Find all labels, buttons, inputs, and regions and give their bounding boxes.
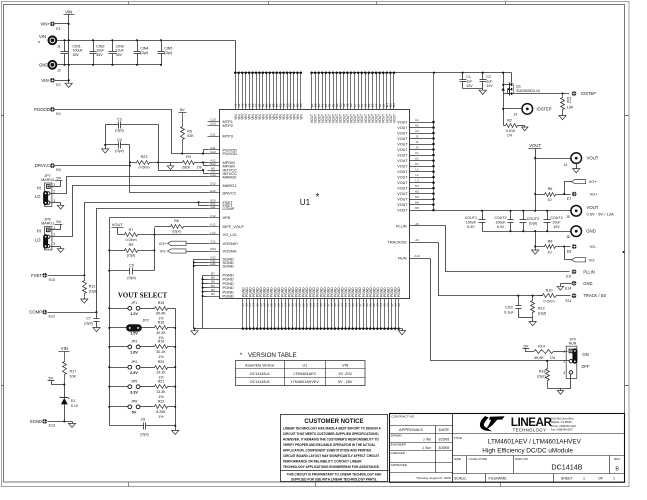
flag VO- sense [565, 247, 597, 263]
svg-text:CIN2: CIN2 [96, 44, 104, 48]
svg-text:E7: E7 [567, 197, 571, 201]
svg-text:3: 3 [563, 371, 565, 375]
svg-text:PERFORMANCE OR RELIABILITY. C: PERFORMANCE OR RELIABILITY. CONTACT LINE… [283, 459, 362, 463]
svg-text:2.5V: 2.5V [130, 371, 138, 375]
svg-text:SCALE:: SCALE: [454, 477, 467, 481]
wire C3 right vertical to R23 [158, 125, 160, 163]
svg-text:(Opt): (Opt) [538, 312, 546, 316]
terminal E10 FSET [31, 273, 85, 282]
U1 top VOUT pins group with bus [310, 71, 435, 123]
terminal E1 VIN+ [40, 21, 69, 31]
wire VIN rail horizontal to U1 bus [57, 39, 236, 72]
resistor R5 51K PGOOD pullup [179, 107, 195, 154]
svg-text:MARG0: MARG0 [41, 178, 54, 182]
svg-text:13.3K: 13.3K [156, 390, 166, 394]
svg-text:PLLIN: PLLIN [583, 269, 594, 274]
resistor R8 10 to E8 [536, 240, 571, 255]
svg-text:CIN3: CIN3 [116, 44, 124, 48]
svg-text:*: * [240, 352, 243, 359]
svg-text:CUSTOMER NOTICE: CUSTOMER NOTICE [304, 418, 363, 425]
svg-text:HOWEVER, IT REMAINS THE CUSTOM: HOWEVER, IT REMAINS THE CUSTOMER'S RESPO… [283, 437, 379, 441]
svg-text:SHEET: SHEET [561, 477, 574, 481]
svg-text:6.3V: 6.3V [467, 225, 475, 229]
svg-text:K2: K2 [415, 156, 419, 160]
svg-text:(Opt): (Opt) [140, 51, 148, 55]
title text [482, 438, 581, 454]
title block grid [390, 414, 625, 483]
svg-text:CIRCUIT THAT MEETS CUSTOMER-SU: CIRCUIT THAT MEETS CUSTOMER-SUPPLIED SPE… [283, 432, 379, 436]
svg-text:1%: 1% [158, 395, 164, 399]
svg-text:Q1: Q1 [516, 84, 521, 88]
terminal E9 PLLIN [566, 269, 595, 278]
svg-text:PLLIN: PLLIN [396, 224, 407, 228]
svg-text:(Opt): (Opt) [127, 253, 135, 257]
svg-text:VOUT: VOUT [397, 137, 408, 141]
svg-text:10uF: 10uF [116, 49, 125, 53]
svg-text:1.8V: 1.8V [130, 351, 138, 355]
svg-text:SUD50N03-10: SUD50N03-10 [516, 89, 540, 93]
svg-text:REV: REV [614, 457, 621, 461]
svg-text:VOUT: VOUT [397, 159, 408, 163]
svg-text:(Opt): (Opt) [140, 432, 148, 436]
svg-text:VERSION TABLE: VERSION TABLE [248, 352, 297, 359]
capacitor C6 optional [140, 417, 148, 436]
svg-text:PGND: PGND [397, 287, 401, 297]
svg-text:E13: E13 [49, 423, 55, 427]
svg-text:F12: F12 [210, 214, 216, 218]
svg-text:PGOOD: PGOOD [223, 151, 238, 156]
svg-text:MARG1: MARG1 [41, 222, 54, 226]
svg-text:35V: 35V [96, 53, 103, 57]
svg-text:R16: R16 [158, 321, 165, 325]
svg-text:1uF: 1uF [466, 80, 473, 84]
svg-text:(Opt): (Opt) [84, 322, 92, 326]
ground at left PGND rail [191, 329, 198, 336]
svg-text:VOUT: VOUT [397, 153, 408, 157]
svg-text:J3: J3 [416, 145, 419, 149]
capacitor COUT3 [520, 211, 539, 232]
svg-text:5V: 5V [49, 376, 54, 381]
svg-text:CAGE CODE: CAGE CODE [469, 457, 488, 461]
svg-text:1%: 1% [196, 166, 202, 170]
capacitor C3 optional [104, 118, 158, 149]
svg-text:LTM4601AHVEV: LTM4601AHVEV [291, 380, 319, 384]
svg-text:5V - 28V: 5V - 28V [338, 380, 353, 384]
jumper JP9 RUN [563, 337, 590, 378]
svg-text:J1: J1 [57, 45, 61, 49]
svg-text:A10: A10 [414, 254, 420, 258]
svg-text:VO+: VO+ [590, 192, 599, 197]
svg-text:M3: M3 [392, 103, 396, 107]
svg-text:M12: M12 [210, 247, 216, 251]
U1 right VOUT pins with bus [397, 72, 435, 213]
terminal E2 VIN- [41, 78, 69, 87]
svg-text:VOUT: VOUT [397, 148, 408, 152]
resistor R18 optional [537, 361, 549, 389]
svg-text:3/25/08: 3/25/08 [438, 446, 449, 450]
svg-text:SIZE: SIZE [454, 457, 461, 461]
svg-text:COUT1: COUT1 [465, 216, 477, 220]
svg-text:VOUT: VOUT [397, 187, 408, 191]
svg-text:D1: D1 [71, 399, 76, 403]
svg-text:J2: J2 [57, 69, 61, 73]
svg-text:VO+: VO+ [589, 179, 598, 184]
svg-text:R15: R15 [158, 301, 165, 305]
svg-text:0 Ohm: 0 Ohm [138, 166, 149, 170]
jack J1 VIN [38, 34, 61, 49]
svg-text:E8: E8 [567, 249, 571, 253]
customer notice box [281, 415, 389, 482]
svg-text:TECHNOLOGY APPLICATIONS ENGINE: TECHNOLOGY APPLICATIONS ENGINEERING FOR … [283, 465, 380, 469]
terminal E14 GND [557, 281, 592, 291]
svg-text:B: B [615, 466, 619, 472]
svg-text:OF: OF [598, 477, 604, 481]
svg-text:0.1uF: 0.1uF [504, 310, 514, 314]
svg-text:5V: 5V [56, 219, 61, 224]
wire C1-C2 ground join [463, 89, 483, 91]
svg-text:R2: R2 [507, 118, 512, 122]
svg-text:OFF: OFF [581, 364, 590, 369]
svg-text:3.3V: 3.3V [130, 390, 138, 394]
svg-text:1%: 1% [158, 415, 164, 419]
svg-text:VOUT: VOUT [397, 120, 408, 124]
svg-text:M2: M2 [415, 190, 419, 194]
svg-text:DWG NO: DWG NO [515, 457, 529, 461]
svg-text:5V: 5V [180, 107, 185, 112]
svg-text:TRACK / SS: TRACK / SS [583, 293, 606, 298]
svg-text:D3: D3 [299, 103, 303, 107]
resistor R2 0.010 1% sense [504, 118, 529, 137]
svg-text:C1: C1 [466, 75, 471, 79]
flag VO+ sense [565, 179, 598, 194]
jumper JP8 5V with resistor R22 8.25K [110, 400, 176, 419]
svg-text:1.2V: 1.2V [130, 312, 138, 316]
svg-text:R22: R22 [158, 400, 165, 404]
svg-text:D12: D12 [210, 182, 216, 186]
svg-text:SUPPLIED FOR USE WITH LINEAR T: SUPPLIED FOR USE WITH LINEAR TECHNOLOGY … [291, 477, 377, 481]
svg-text:10V: 10V [486, 84, 493, 88]
svg-text:DC1414B: DC1414B [551, 463, 582, 472]
svg-text:E12: E12 [210, 189, 216, 193]
jumper JP3 1.8V with resistor R19 30.1K [110, 340, 176, 359]
wire VIN rail vertical [68, 15, 70, 84]
svg-text:R18: R18 [539, 369, 546, 373]
svg-text:R1: R1 [567, 100, 572, 104]
wire PGND left pins to ground rail [202, 276, 208, 329]
svg-text:R5: R5 [187, 130, 192, 134]
svg-text:E14: E14 [565, 287, 571, 291]
svg-text:TRACK/SS: TRACK/SS [388, 241, 407, 245]
svg-text:A9: A9 [415, 238, 419, 242]
svg-text:VOUT: VOUT [397, 131, 408, 135]
net flag VOUT at R7 [112, 222, 124, 234]
svg-text:VIN-: VIN- [41, 78, 50, 83]
svg-text:D11: D11 [210, 132, 216, 136]
VOUT SELECT title [118, 292, 168, 300]
net flag 5V tap [48, 376, 66, 386]
U1 top VIN pins group with bus [234, 71, 304, 119]
resistor R4 392K 1% [159, 155, 208, 170]
svg-text:VOUT: VOUT [587, 205, 599, 210]
svg-text:APPLICATION. COMPONENT SUBSTI: APPLICATION. COMPONENT SUBSTITUTION AND … [283, 448, 372, 452]
svg-text:J. Wu: J. Wu [423, 437, 431, 441]
svg-text:GND: GND [586, 229, 596, 234]
svg-text:LINEAR TECHNOLOGY HAS MADE A B: LINEAR TECHNOLOGY HAS MADE A BEST EFFORT… [283, 426, 381, 430]
svg-text:E11: E11 [566, 299, 572, 303]
U1 pin A8 PLLIN stub [396, 222, 446, 229]
wire Q1 source row to E3 [512, 92, 570, 94]
zener diode D1 5.1V [60, 385, 79, 422]
resistor R6 optional DIFF_VOUT [155, 219, 208, 234]
svg-text:6.3V: 6.3V [497, 225, 505, 229]
wire VFB rail [110, 218, 208, 426]
terminal E7 VO+ [567, 192, 598, 201]
jack J2 GND [39, 61, 162, 73]
svg-text:APPROVED: APPROVED [391, 463, 407, 467]
svg-text:R21: R21 [158, 380, 165, 384]
wire VOUT SELECT left rail [108, 307, 110, 408]
svg-text:E4: E4 [56, 112, 60, 116]
svg-text:10uF: 10uF [96, 49, 105, 53]
svg-text:COMP: COMP [223, 206, 235, 211]
svg-text:1: 1 [613, 477, 615, 481]
capacitor CIN2 [90, 39, 106, 66]
svg-text:DC1414B-A: DC1414B-A [250, 372, 270, 376]
svg-text:HI: HI [37, 229, 41, 234]
svg-text:10uF: 10uF [552, 220, 561, 224]
svg-text:30.1K: 30.1K [156, 350, 166, 354]
svg-text:392K: 392K [182, 166, 191, 170]
svg-text:10K: 10K [567, 105, 574, 109]
svg-text:IOSTEP: IOSTEP [581, 91, 596, 96]
jumper JP7 MARG0 [35, 174, 64, 209]
svg-text:MTP3: MTP3 [223, 134, 233, 139]
svg-text:C12: C12 [210, 173, 216, 177]
svg-text:VOSNS-: VOSNS- [223, 249, 239, 254]
svg-text:R12: R12 [538, 306, 545, 310]
svg-text:VIN: VIN [342, 364, 348, 368]
svg-text:0 Ohm: 0 Ohm [125, 238, 136, 242]
svg-text:VIN: VIN [299, 114, 303, 120]
capacitor COUT4 [544, 211, 563, 232]
svg-text:JP4: JP4 [131, 360, 137, 364]
svg-text:M4: M4 [415, 201, 419, 205]
svg-text:R19: R19 [158, 340, 165, 344]
svg-text:VERIFY PROPER AND RELIABLE OPE: VERIFY PROPER AND RELIABLE OPERATION IN … [283, 443, 376, 447]
svg-text:L1: L1 [415, 167, 419, 171]
svg-text:VOUT: VOUT [397, 164, 408, 168]
version table [236, 361, 366, 386]
flag VOSNS+ to U1 [159, 241, 208, 246]
svg-text:1%: 1% [507, 134, 513, 138]
svg-text:MARG0: MARG0 [223, 174, 238, 179]
svg-text:DC1414B-B: DC1414B-B [250, 380, 270, 384]
svg-text:VOUT SELECT: VOUT SELECT [118, 292, 168, 300]
svg-text:(Opt): (Opt) [164, 51, 172, 55]
svg-text:R14: R14 [538, 344, 545, 348]
svg-text:35V: 35V [116, 53, 123, 57]
svg-text:Phone: (408)432-1900: Phone: (408)432-1900 [551, 425, 577, 428]
wire VOUT main rail [434, 210, 571, 212]
svg-text:E1: E1 [56, 27, 60, 31]
svg-text:VOSNS+: VOSNS+ [223, 241, 240, 246]
wire VO_LCL row [155, 228, 208, 271]
svg-text:L12: L12 [210, 231, 215, 235]
svg-text:G12: G12 [210, 150, 216, 154]
svg-text:100uF: 100uF [495, 220, 506, 224]
svg-text:1: 1 [583, 477, 585, 481]
svg-text:VOUT: VOUT [397, 203, 408, 207]
svg-text:VO+: VO+ [159, 242, 167, 246]
svg-text:60.4K: 60.4K [156, 312, 166, 316]
svg-text:R10: R10 [546, 289, 553, 293]
svg-text:LO: LO [35, 194, 40, 199]
svg-text:*: * [38, 41, 41, 47]
svg-text:K12: K12 [210, 223, 216, 227]
svg-text:H3: H3 [415, 129, 419, 133]
svg-text:VOUT: VOUT [529, 143, 541, 148]
svg-text:VIN: VIN [39, 34, 46, 39]
resistor R7 0 Ohm [118, 228, 156, 242]
svg-text:COUT2: COUT2 [494, 216, 506, 220]
svg-text:CONTRACT NO.: CONTRACT NO. [392, 415, 416, 419]
ground at E13 [68, 422, 75, 428]
svg-text:FSET: FSET [31, 273, 42, 278]
svg-text:DRVCC: DRVCC [35, 163, 50, 168]
svg-text:C6: C6 [141, 417, 146, 421]
svg-text:0 Ohm: 0 Ohm [543, 299, 554, 303]
svg-text:JP2: JP2 [142, 319, 148, 323]
svg-text:1: 1 [53, 183, 55, 187]
capacitor CIN4 [134, 39, 149, 66]
svg-text:RUN: RUN [569, 342, 577, 346]
power flag VIN top [64, 9, 75, 14]
svg-text:VO-: VO- [589, 257, 597, 262]
svg-text:E9: E9 [566, 275, 570, 279]
svg-text:10V: 10V [553, 225, 560, 229]
svg-text:VOUT: VOUT [397, 176, 408, 180]
svg-text:VOUT: VOUT [112, 222, 124, 227]
svg-text:1: 1 [563, 349, 565, 353]
wire MARG1 to U1 [50, 186, 208, 237]
resistor R14 49.9K 1% [530, 344, 568, 360]
svg-text:High Efficiency DC/DC uModule: High Efficiency DC/DC uModule [482, 447, 573, 454]
jumper JP4 2.5V with resistor R20 19.1K [110, 360, 176, 379]
svg-text:GND: GND [39, 62, 49, 67]
svg-text:Milpitas, CA 95035: Milpitas, CA 95035 [551, 421, 572, 424]
terminal E3 IOSTEP [567, 91, 596, 101]
wire GND sense vertical [532, 232, 539, 255]
svg-text:J3: J3 [514, 113, 518, 117]
capacitor CIN5 [158, 39, 173, 66]
capacitor C5 optional [108, 264, 154, 281]
wire PGOOD net [55, 110, 208, 155]
flag VOSNS- to U1 [160, 249, 208, 254]
svg-text:8.25K: 8.25K [156, 410, 166, 414]
resistor R23 0 Ohm [130, 155, 160, 170]
capacitor CIN1 [61, 39, 84, 66]
svg-text:CIN1: CIN1 [73, 44, 81, 48]
svg-text:D10: D10 [210, 122, 216, 126]
wire MPGM net with ground tap [167, 161, 207, 169]
svg-text:C7: C7 [86, 317, 91, 321]
jack J3 IOSTEP [504, 104, 552, 117]
svg-text:CSS: CSS [505, 305, 513, 309]
svg-text:1630 McCarthy Blvd.: 1630 McCarthy Blvd. [551, 418, 575, 421]
svg-text:K3: K3 [415, 162, 419, 166]
svg-text:THIS CIRCUIT IS PROPRIETARY TO: THIS CIRCUIT IS PROPRIETARY TO LINEAR TE… [287, 472, 382, 476]
wire RUN net to JP9 [431, 259, 570, 362]
svg-text:(Opt): (Opt) [115, 149, 123, 153]
wire JP9 pin3 to ground [548, 375, 571, 395]
svg-text:JP9: JP9 [569, 337, 575, 341]
svg-text:VOUT: VOUT [397, 170, 408, 174]
svg-text:RUN: RUN [398, 257, 406, 261]
capacitor COUT2 [494, 211, 513, 232]
svg-text:40.2K: 40.2K [156, 331, 166, 335]
svg-text:R11: R11 [89, 285, 96, 289]
jack J5 VOUT output [566, 205, 614, 219]
svg-text:1%: 1% [550, 356, 556, 360]
capacitor C2 1uF 10V [480, 72, 494, 89]
svg-text:C4: C4 [117, 138, 122, 142]
svg-text:10K: 10K [70, 375, 77, 379]
svg-text:CIN5: CIN5 [164, 47, 172, 51]
wire VOUT bus to load section [435, 72, 512, 74]
svg-text:L2: L2 [415, 173, 419, 177]
jack J4 VOUT [536, 153, 599, 173]
U1 bottom PGND pins group [195, 287, 403, 330]
svg-text:VOUT: VOUT [587, 156, 599, 161]
svg-text:SGND: SGND [223, 263, 234, 268]
svg-text:TITLE: TITLE [454, 436, 462, 440]
svg-text:(Opt): (Opt) [127, 276, 135, 280]
svg-text:C5: C5 [129, 264, 134, 268]
svg-text:E12: E12 [49, 315, 55, 319]
U1 left side pin stubs with numbers and names [208, 118, 245, 299]
svg-text:(Opt): (Opt) [115, 128, 123, 132]
wire CSS/R12 ground join [519, 318, 537, 326]
svg-text:VFB: VFB [223, 215, 231, 220]
svg-text:35V: 35V [73, 53, 80, 57]
net flag 5V at R14 [523, 343, 530, 351]
resistor R1 10K [559, 94, 574, 120]
svg-text:FILENAME:: FILENAME: [489, 477, 508, 481]
svg-text:L3: L3 [415, 179, 419, 183]
resistor R17 10K [63, 352, 77, 385]
svg-text:Fax: (408)434-0507: Fax: (408)434-0507 [551, 428, 574, 431]
svg-text:JP5: JP5 [131, 380, 137, 384]
resistor R6out 10 to E7 [536, 187, 571, 202]
svg-text:U1: U1 [300, 198, 311, 207]
svg-text:5V: 5V [523, 343, 528, 348]
resistor R11 optional [81, 276, 98, 304]
wire DRVCC pin row [130, 192, 208, 194]
terminal E12 COMP [29, 310, 97, 319]
svg-text:PGOOD: PGOOD [34, 107, 50, 112]
svg-text:100uF: 100uF [466, 220, 477, 224]
wire INTVCC net [159, 163, 208, 174]
svg-text:GND: GND [583, 281, 592, 286]
svg-text:Assembly Version: Assembly Version [245, 364, 274, 368]
svg-text:LTM4601AEV: LTM4601AEV [293, 372, 316, 376]
net flag VIN mid-left [59, 346, 70, 352]
svg-text:M5: M5 [415, 206, 419, 210]
svg-text:COMP: COMP [29, 310, 42, 315]
jumper JP2 1.5V with resistor R16 40.2K [110, 319, 176, 340]
terminal E11 TRACK/SS [566, 293, 607, 303]
wire SGND pins to ground rail [193, 260, 208, 330]
